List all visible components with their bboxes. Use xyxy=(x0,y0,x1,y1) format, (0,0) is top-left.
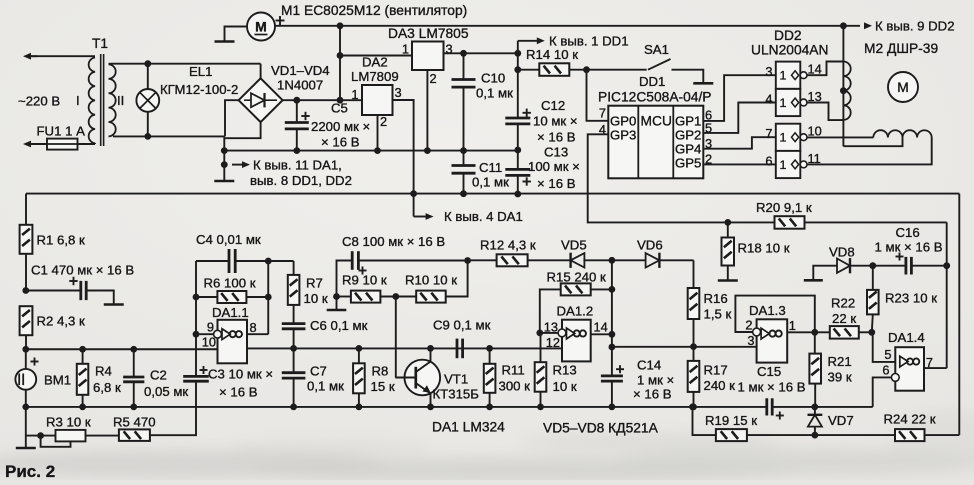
resistor R22 xyxy=(815,331,830,333)
node: R17 bottom xyxy=(690,404,697,411)
wire: M2 supply riser xyxy=(842,26,844,146)
node: C9 right xyxy=(486,345,493,352)
svg-text:C10: C10 xyxy=(481,71,505,86)
wire: DA2 pin2 to minus rail xyxy=(377,115,379,151)
svg-text:M: M xyxy=(255,19,267,35)
wire: mains top lead with left arrow xyxy=(29,55,37,57)
svg-text:2: 2 xyxy=(380,114,387,129)
svg-text:7: 7 xyxy=(765,126,772,141)
wire: pin7 lead xyxy=(924,367,947,369)
wire: pin6 lead xyxy=(873,377,892,407)
node: C2 bottom xyxy=(130,404,137,411)
node: pin14 junction xyxy=(609,331,616,338)
wire: GP3 pin4 lead down to R18/R20 rail xyxy=(588,134,728,222)
node: R9-R10 junction xyxy=(392,293,399,300)
svg-text:C6 0,1 мк: C6 0,1 мк xyxy=(310,318,368,333)
svg-text:22 к: 22 к xyxy=(832,311,856,326)
svg-text:GP1: GP1 xyxy=(675,113,701,128)
svg-text:10 к: 10 к xyxy=(304,291,328,306)
svg-text:GP0: GP0 xyxy=(610,113,636,128)
wire: feedback right riser to pin8 xyxy=(267,261,269,334)
wire: pin9 node to inverting input xyxy=(196,333,214,335)
capacitor C2 xyxy=(133,349,135,376)
svg-text:C13: C13 xyxy=(544,145,568,160)
svg-text:К выв. 11 DA1,: К выв. 11 DA1, xyxy=(253,158,342,173)
wire: pin12 lead xyxy=(490,347,562,349)
svg-text:DA1.2: DA1.2 xyxy=(557,304,594,319)
ground at R9 left xyxy=(336,297,338,310)
svg-text:6: 6 xyxy=(882,363,889,378)
svg-text:240 к: 240 к xyxy=(704,378,736,393)
transformer T1 primary winding xyxy=(89,58,95,144)
svg-text:R22: R22 xyxy=(831,296,855,311)
svg-text:R15 240 к: R15 240 к xyxy=(547,270,607,285)
wire: M1 to ground xyxy=(225,27,248,41)
svg-text:R24 22 к: R24 22 к xyxy=(884,412,936,427)
node: C10 bottom on rail xyxy=(460,147,467,154)
svg-text:SA1: SA1 xyxy=(644,42,669,57)
wire: AC riser to bridge left vertex xyxy=(225,100,239,136)
lamp EL1 xyxy=(147,64,149,89)
node: C8 ground corner xyxy=(333,293,340,300)
node: R8 bottom xyxy=(356,404,363,411)
wire: +9V rail left drop to R1 xyxy=(25,194,27,225)
resistor R5 xyxy=(119,429,150,441)
svg-text:R7: R7 xyxy=(306,276,323,291)
node: R3 tap junction xyxy=(37,432,44,439)
ground at SA1 xyxy=(693,82,713,85)
arrow: K vyv. 9 DD2 xyxy=(864,22,872,29)
node: VT1 emitter bottom xyxy=(427,404,434,411)
wire: C15 right to integrator node xyxy=(772,406,873,408)
wire: BM1 ground stub xyxy=(25,407,27,447)
wire: VT1 emitter xyxy=(416,383,431,407)
resistor R7 xyxy=(293,261,295,275)
bridge rectifier VD1-VD4 diamond xyxy=(239,78,283,122)
svg-text:1: 1 xyxy=(780,69,787,83)
svg-text:T1: T1 xyxy=(92,36,108,51)
svg-text:R6 100 к: R6 100 к xyxy=(204,276,256,291)
node: R6 left xyxy=(193,294,200,301)
svg-text:VD8: VD8 xyxy=(829,245,855,260)
svg-text:2: 2 xyxy=(745,318,752,333)
svg-text:DD1: DD1 xyxy=(639,74,665,89)
svg-text:2200 мк ×: 2200 мк × xyxy=(311,119,370,134)
node: VD7 bottom xyxy=(812,432,819,439)
op-amp DA1.4 xyxy=(895,347,924,391)
capacitor C10 xyxy=(463,53,465,78)
wire: DD2 out13 to winding A bottom xyxy=(807,103,843,121)
svg-text:MCU: MCU xyxy=(641,113,672,128)
node: C4 right riser xyxy=(265,258,272,265)
node: C16 left xyxy=(869,262,876,269)
capacitor C12 xyxy=(517,53,519,117)
node: R13 bottom xyxy=(537,404,544,411)
wire: DD2 out11 to winding B right xyxy=(807,138,932,165)
wire: R19 row xyxy=(693,407,717,435)
wire: +12V top rail xyxy=(275,25,860,27)
svg-text:ВМ1: ВМ1 xyxy=(44,373,71,388)
capacitor C16 xyxy=(873,265,905,267)
wire: DA3 input from top rail xyxy=(340,55,412,57)
svg-text:3: 3 xyxy=(747,333,754,348)
wire: feedback left riser xyxy=(195,261,197,334)
voltage regulator DA3 LM7805 xyxy=(412,42,444,71)
label + at M1 xyxy=(276,20,285,22)
svg-text:R1 6,8 к: R1 6,8 к xyxy=(37,233,86,248)
svg-text:C1 470 мк × 16 В: C1 470 мк × 16 В xyxy=(31,263,134,278)
capacitor C1 xyxy=(26,290,80,292)
svg-text:R2 4,3 к: R2 4,3 к xyxy=(37,314,86,329)
svg-text:7: 7 xyxy=(599,106,606,121)
node: EL1 bottom junction xyxy=(144,133,151,140)
node: bridge output at x340 xyxy=(337,97,344,104)
node: top rail at x340 xyxy=(337,22,344,29)
svg-text:R14 10 к: R14 10 к xyxy=(526,47,578,62)
inverting input circle DA1.2 xyxy=(558,329,566,337)
transistor VT1 xyxy=(405,360,441,396)
svg-text:R3 10 к: R3 10 к xyxy=(46,415,91,430)
wire: top rail drop to bridge output xyxy=(339,26,341,100)
diode VD7 xyxy=(814,407,816,414)
svg-text:1: 1 xyxy=(402,42,409,57)
wire: secondary bottom row xyxy=(113,135,225,137)
node: VD5-VD6 junction xyxy=(609,257,616,264)
svg-text:К выв. 4 DA1: К выв. 4 DA1 xyxy=(444,209,523,224)
wire: R20 right drop xyxy=(946,222,948,368)
svg-text:1: 1 xyxy=(780,158,787,172)
node: +9V feed xyxy=(410,190,417,197)
node: R15 right xyxy=(609,286,616,293)
svg-text:R17: R17 xyxy=(704,363,728,378)
node: C14 top T xyxy=(609,344,616,351)
bridge inner diode symbol xyxy=(244,99,251,101)
trimmer R3 xyxy=(56,430,86,442)
op-amp DA1.3 xyxy=(757,319,788,362)
capacitor C5 xyxy=(296,100,298,121)
wire: DA1.1 output row xyxy=(247,347,490,349)
svg-text:выв. 8 DD1, DD2: выв. 8 DD1, DD2 xyxy=(250,173,352,188)
diode VD6 (points right) xyxy=(612,259,646,261)
capacitor C7 xyxy=(293,348,295,371)
svg-text:VT1: VT1 xyxy=(444,372,468,387)
capacitor C9 xyxy=(456,339,459,359)
ground at R18 xyxy=(718,279,738,282)
resistor R21 xyxy=(814,332,816,353)
wire: secondary top to bridge xyxy=(109,63,261,65)
node: C16 right xyxy=(943,262,950,269)
svg-text:II: II xyxy=(117,93,124,108)
svg-text:DA2: DA2 xyxy=(362,55,388,70)
resistor R6 xyxy=(196,296,218,298)
svg-text:100 мк ×: 100 мк × xyxy=(528,159,580,174)
wire: DA3 pin2 to minus rail xyxy=(426,70,428,151)
node: C6 bottom xyxy=(290,345,297,352)
svg-text:× 16 В: × 16 В xyxy=(219,385,258,400)
svg-text:C11: C11 xyxy=(479,160,502,175)
svg-text:R11: R11 xyxy=(502,363,525,378)
node: mic row left xyxy=(22,346,29,353)
svg-text:2: 2 xyxy=(430,71,437,86)
svg-text:0,1 мк: 0,1 мк xyxy=(472,175,509,190)
capacitor C8 xyxy=(351,251,354,270)
inverting input circle DA1.3 xyxy=(753,328,761,336)
label + at BM1 xyxy=(31,361,39,363)
node: R1-R2 junction xyxy=(22,287,29,294)
svg-text:C8 100 мк × 16 В: C8 100 мк × 16 В xyxy=(342,234,445,249)
svg-text:0,05 мк: 0,05 мк xyxy=(144,384,188,399)
voltage regulator DA2 LM7809 xyxy=(362,85,393,115)
node: winding A centre tap xyxy=(840,87,847,94)
label + at C3 xyxy=(200,369,208,371)
wire: bridge bottom vertex to minus rail xyxy=(224,122,260,151)
ground symbol below rail xyxy=(214,180,234,183)
resistor R10 xyxy=(416,291,446,303)
motor M1 (fan) xyxy=(247,13,275,41)
node: R14 right xyxy=(583,66,590,73)
node: BM1 bottom xyxy=(22,404,29,411)
svg-text:1,5 к: 1,5 к xyxy=(704,307,732,322)
resistor R14 xyxy=(518,69,540,71)
resistor R16 xyxy=(688,288,700,319)
svg-text:КГМ12-100-2: КГМ12-100-2 xyxy=(160,82,238,97)
node: DA1.3 output node xyxy=(811,329,818,336)
svg-text:Рис. 2: Рис. 2 xyxy=(5,462,55,480)
svg-text:10 к: 10 к xyxy=(553,379,577,394)
wire: +5V line xyxy=(444,52,518,54)
node: R4 bottom xyxy=(79,404,86,411)
node: DA1.1 pin9 node xyxy=(193,331,200,338)
svg-text:1 мк × 16 В: 1 мк × 16 В xyxy=(875,240,943,255)
wire: C4 row xyxy=(196,260,228,262)
node: C11 bottom on +9 rail xyxy=(460,190,467,197)
resistor R18 xyxy=(727,222,729,237)
node: R6 right xyxy=(265,294,272,301)
ground at C1 xyxy=(104,303,124,306)
node: DA2 pin2 on rail xyxy=(374,147,381,154)
node: R4 top xyxy=(79,346,86,353)
node: R21 bottom / VD7 top xyxy=(811,404,818,411)
wire: +9V rail right drop to R24 xyxy=(958,194,960,435)
diode VD8 xyxy=(813,266,837,280)
resistor R17 xyxy=(688,361,700,392)
DD2 cell pin 4->13 xyxy=(776,89,801,116)
op-amp DA1.2 xyxy=(562,320,591,362)
svg-text:R20 9,1 к: R20 9,1 к xyxy=(756,200,812,215)
svg-text:DA3 LM7805: DA3 LM7805 xyxy=(388,26,469,41)
svg-text:FU1 1 А: FU1 1 А xyxy=(37,124,86,139)
wire: minus rail (ground bus) xyxy=(224,150,518,152)
resistor R23 xyxy=(872,266,874,290)
wire: fuse to left arrow xyxy=(29,143,37,145)
svg-text:GP4: GP4 xyxy=(675,141,701,156)
svg-text:R9 10 к: R9 10 к xyxy=(342,273,387,288)
node: C5 top xyxy=(293,97,300,104)
svg-text:C9 0,1 мк: C9 0,1 мк xyxy=(433,318,491,333)
svg-text:5: 5 xyxy=(884,347,891,362)
svg-text:6: 6 xyxy=(765,153,772,168)
svg-text:М: М xyxy=(897,80,909,95)
resistor R4 xyxy=(82,349,84,364)
fuse FU1 xyxy=(47,139,78,150)
arrow: K vyv. 4 DA1 xyxy=(413,194,415,217)
op-amp DA1.1 xyxy=(218,320,248,364)
inverting input circle DA1.4 (pin6) xyxy=(891,374,899,382)
svg-text:6,8 к: 6,8 к xyxy=(93,380,121,395)
ground at BM1 xyxy=(16,447,36,450)
svg-text:М1 ЕС8025М12 (вентилятор): М1 ЕС8025М12 (вентилятор) xyxy=(281,3,467,18)
node: R17 / R19 corner xyxy=(689,404,696,411)
svg-text:1: 1 xyxy=(351,87,358,102)
wire: DA1.3 feedback loop xyxy=(735,296,814,333)
svg-text:R8: R8 xyxy=(372,364,389,379)
svg-text:10: 10 xyxy=(202,335,216,350)
svg-text:VD5–VD8 КД521А: VD5–VD8 КД521А xyxy=(543,421,659,436)
svg-text:GP3: GP3 xyxy=(610,127,636,142)
svg-text:0,1 мк: 0,1 мк xyxy=(307,379,344,394)
resistor R13 xyxy=(540,333,542,362)
diode VD5 (points left) xyxy=(571,253,585,267)
trimmer R3 tap xyxy=(41,436,71,447)
wire: R3 to R5 xyxy=(86,435,119,437)
wire: +9V rail xyxy=(26,193,959,195)
wire: DA1.3 pin1 lead xyxy=(787,331,815,333)
switch SA1 xyxy=(587,69,647,71)
svg-text:PIC12C508A-04/P: PIC12C508A-04/P xyxy=(598,90,712,105)
svg-text:R4: R4 xyxy=(95,364,112,379)
wire: GP4 to DD2 input 7 xyxy=(703,137,776,149)
svg-text:C14: C14 xyxy=(637,358,661,373)
arrow: K vyv. 1 DD1 xyxy=(517,41,519,54)
capacitor C13 xyxy=(517,150,519,168)
svg-text:1 мк ×: 1 мк × xyxy=(637,373,674,388)
svg-text:EL1: EL1 xyxy=(189,64,212,79)
svg-text:× 16 В: × 16 В xyxy=(537,130,576,145)
wire: DD2 out14 to winding A top xyxy=(807,62,843,76)
node: VT1 collector top xyxy=(427,345,434,352)
svg-text:39 к: 39 к xyxy=(828,370,852,385)
wire: DA1.2 pin14 riser xyxy=(611,260,613,347)
node: rail left end xyxy=(221,147,228,154)
node: DA1.2 pin13 node xyxy=(536,330,543,337)
capacitor C4 xyxy=(228,249,231,273)
svg-text:9: 9 xyxy=(207,320,214,335)
svg-text:1: 1 xyxy=(789,318,796,333)
svg-text:DD2: DD2 xyxy=(774,28,802,43)
svg-text:C4 0,01 мк: C4 0,01 мк xyxy=(196,232,261,247)
stepper winding A (vertical, 4 arcs) xyxy=(843,62,850,120)
svg-text:× 16 В: × 16 В xyxy=(537,176,576,191)
svg-text:VD5: VD5 xyxy=(561,238,587,253)
arrow: K vyv. 11 DA1 xyxy=(232,164,244,166)
resistor R15 xyxy=(540,289,561,333)
svg-text:VD6: VD6 xyxy=(637,238,663,253)
resistor R1 xyxy=(20,225,33,254)
wire: GP2 to DD2 input 4 xyxy=(703,103,776,133)
svg-text:К выв. 9 DD2: К выв. 9 DD2 xyxy=(875,19,955,34)
node: C7 bottom xyxy=(290,404,297,411)
svg-text:GP5: GP5 xyxy=(675,155,701,170)
svg-text:1: 1 xyxy=(780,131,787,145)
wire: bias to VT1 base xyxy=(395,297,397,378)
svg-text:R21: R21 xyxy=(828,354,852,369)
resistor R19 xyxy=(716,429,747,441)
svg-text:R5 470: R5 470 xyxy=(113,415,156,430)
node: R18 top xyxy=(724,219,731,226)
svg-text:~220 В: ~220 В xyxy=(18,94,60,109)
svg-text:× 16 В: × 16 В xyxy=(321,135,360,150)
node: C14 bottom xyxy=(609,404,616,411)
svg-text:VD7: VD7 xyxy=(828,413,854,428)
svg-text:C5: C5 xyxy=(331,101,348,116)
node: C5 bottom xyxy=(293,147,300,154)
wire: detector output to R16/R17 and DA1.3 pin3 xyxy=(612,346,757,348)
node: C12 at R14 xyxy=(514,66,521,73)
DD2 cell pin 3->14 xyxy=(776,62,801,89)
capacitor C11 xyxy=(463,151,465,165)
svg-text:14: 14 xyxy=(594,320,608,335)
svg-text:LM7809: LM7809 xyxy=(351,69,399,84)
ground at M1 xyxy=(215,40,235,43)
svg-text:C2: C2 xyxy=(150,368,167,383)
svg-text:× 16 В: × 16 В xyxy=(633,387,672,402)
node: C2 top xyxy=(130,346,137,353)
capacitor C14 xyxy=(611,347,613,375)
svg-text:I: I xyxy=(76,93,80,108)
DD2 cell pin 7->10 xyxy=(776,124,801,151)
svg-text:DA1.4: DA1.4 xyxy=(888,330,925,345)
capacitor C15 (on ground row) xyxy=(765,398,768,415)
svg-text:R19 15 к: R19 15 к xyxy=(705,413,757,428)
svg-text:GP2: GP2 xyxy=(675,127,701,142)
node: C12 bottom rail end xyxy=(514,147,521,154)
node: R11 bottom xyxy=(486,404,493,411)
svg-text:С3 10 мк ×: С3 10 мк × xyxy=(208,367,273,382)
resistor R11 xyxy=(489,348,491,364)
wire: winding B centre tap to supply riser xyxy=(843,138,902,147)
svg-text:13: 13 xyxy=(544,320,558,335)
microphone BM1 xyxy=(25,349,27,369)
svg-text:R16: R16 xyxy=(704,291,728,306)
resistor R24 xyxy=(815,434,895,436)
svg-text:15 к: 15 к xyxy=(371,379,395,394)
svg-text:C12: C12 xyxy=(541,98,565,113)
node: C12 at +5 xyxy=(514,50,521,57)
wire: GP0 pin7 lead xyxy=(587,70,609,121)
inverting input circle DA1.1 xyxy=(214,330,222,338)
svg-text:3: 3 xyxy=(395,85,402,100)
wire: DD2 out10 to winding B left xyxy=(807,136,873,138)
svg-text:0,1 мк: 0,1 мк xyxy=(476,86,513,101)
transformer T1 secondary winding xyxy=(109,64,116,136)
wire: VT1 collector xyxy=(416,348,431,372)
wire: rail stub down to ground xyxy=(223,151,225,180)
svg-text:1 мк × 16 В: 1 мк × 16 В xyxy=(738,380,806,395)
node: R8 top xyxy=(356,345,363,352)
node: R16-R17 junction xyxy=(690,343,697,350)
wire: primary bottom to fuse xyxy=(78,143,96,145)
svg-text:300 к: 300 к xyxy=(499,379,531,394)
svg-text:DA1 LM324: DA1 LM324 xyxy=(432,420,505,435)
svg-text:КТ315Б: КТ315Б xyxy=(433,387,479,402)
wire: pin13 lead xyxy=(540,332,559,334)
wire: GP5 to DD2 input 6 xyxy=(703,163,776,165)
resistor R8 xyxy=(358,348,360,363)
svg-text:1: 1 xyxy=(780,96,787,110)
node: DA3 pin2 on rail xyxy=(424,147,431,154)
wire: VD6 to R16 xyxy=(693,260,695,288)
DD2 cell pin 6->11 xyxy=(776,151,801,178)
